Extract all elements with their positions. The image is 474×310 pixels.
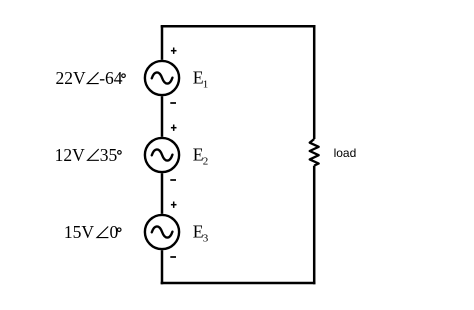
wire bottom rail	[161, 282, 316, 285]
source E3 sine wave	[152, 226, 173, 237]
wire right side lower (load to bottom rail)	[313, 166, 316, 285]
value label 35 degrees	[100, 145, 121, 165]
wire from bottom rail to E3 bottom	[161, 250, 164, 284]
source E2 circle	[145, 138, 179, 172]
svg-text:3: 3	[203, 233, 209, 245]
E3 polarity plus	[171, 202, 177, 208]
E1 polarity plus	[171, 48, 177, 54]
svg-text:load: load	[334, 146, 357, 160]
value label -64 degrees	[99, 68, 125, 88]
label E2	[193, 145, 209, 168]
label E1	[193, 68, 209, 91]
source E3 circle	[145, 215, 179, 249]
svg-text:0: 0	[110, 222, 119, 242]
angle symbol for E3 value	[97, 227, 108, 238]
resistor load zigzag	[310, 139, 319, 166]
svg-text:15V: 15V	[64, 222, 95, 242]
source E1 sine wave	[152, 72, 173, 83]
value label 0 degrees	[110, 222, 121, 242]
angle symbol for E2 value	[88, 149, 99, 160]
svg-text:22V: 22V	[56, 68, 87, 88]
svg-text:2: 2	[203, 156, 209, 168]
wire between E1 and E2	[161, 96, 164, 137]
wire top rail	[161, 25, 316, 28]
svg-text:35: 35	[100, 145, 118, 165]
source E2 sine wave	[152, 149, 173, 160]
E1 polarity minus	[170, 102, 176, 104]
svg-text:12V: 12V	[55, 145, 86, 165]
angle symbol for E1 value	[87, 72, 98, 83]
wire from E1 top to top rail	[161, 26, 164, 60]
E3 polarity minus	[170, 256, 176, 258]
E2 polarity minus	[170, 179, 176, 181]
wire right side upper (top rail to load)	[313, 25, 316, 139]
label E3	[193, 222, 209, 245]
E2 polarity plus	[171, 125, 177, 131]
svg-text:1: 1	[203, 79, 209, 91]
wire between E2 and E3	[161, 173, 164, 214]
svg-text:-64: -64	[99, 68, 123, 88]
source E1 circle	[145, 61, 179, 95]
